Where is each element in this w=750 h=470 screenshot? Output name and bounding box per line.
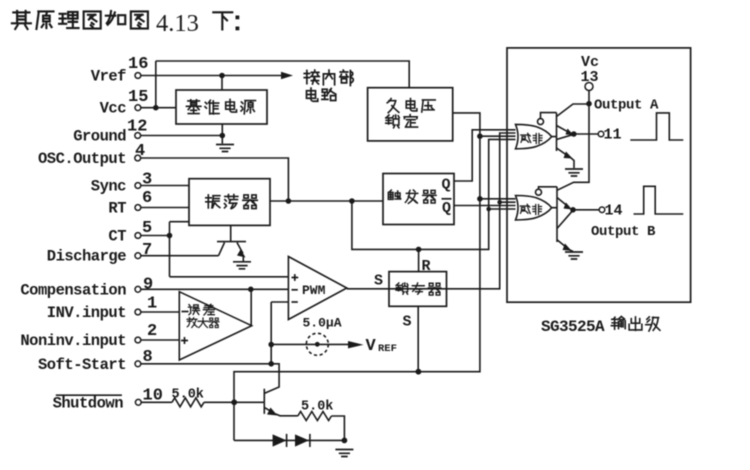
svg-text:5: 5 xyxy=(142,219,152,238)
svg-text:1: 1 xyxy=(147,295,157,314)
svg-text:Output A: Output A xyxy=(594,98,659,114)
svg-text:SG3525A: SG3525A xyxy=(541,318,605,336)
svg-text:INV.input: INV.input xyxy=(47,304,126,322)
svg-text:2: 2 xyxy=(147,322,157,341)
svg-text:REF: REF xyxy=(378,343,397,355)
svg-text:S: S xyxy=(374,273,383,290)
svg-text:13: 13 xyxy=(581,69,599,86)
svg-text:12: 12 xyxy=(127,118,147,137)
svg-text:R: R xyxy=(422,258,431,275)
svg-text:Discharge: Discharge xyxy=(47,248,126,266)
svg-text:6: 6 xyxy=(142,189,152,208)
svg-text:3: 3 xyxy=(142,171,152,190)
svg-text:OSC.Output: OSC.Output xyxy=(38,150,126,168)
svg-text:15: 15 xyxy=(128,88,148,107)
svg-text:5.0k: 5.0k xyxy=(172,388,204,403)
svg-text:8: 8 xyxy=(143,348,153,367)
svg-text:7: 7 xyxy=(142,241,152,260)
svg-text:Output B: Output B xyxy=(591,224,656,240)
svg-text:Sync: Sync xyxy=(91,178,126,196)
svg-text:CT: CT xyxy=(108,228,126,246)
svg-text:Shutdown: Shutdown xyxy=(53,394,124,412)
svg-text:Noninv.input: Noninv.input xyxy=(20,332,126,350)
svg-text:11: 11 xyxy=(604,127,622,144)
svg-text:14: 14 xyxy=(605,202,623,219)
svg-text:5.0k: 5.0k xyxy=(301,400,333,415)
svg-text:Soft-Start: Soft-Start xyxy=(38,356,126,374)
svg-text:Q: Q xyxy=(442,177,451,194)
svg-text:Compensation: Compensation xyxy=(20,281,126,299)
svg-text:9: 9 xyxy=(143,276,153,295)
svg-text:Vcc: Vcc xyxy=(100,100,127,118)
svg-text:RT: RT xyxy=(108,200,126,218)
svg-text:Ground: Ground xyxy=(73,128,126,146)
svg-text:10: 10 xyxy=(143,387,163,406)
svg-text:4: 4 xyxy=(135,142,145,161)
svg-text:Q: Q xyxy=(442,200,451,217)
svg-text:16: 16 xyxy=(128,55,148,74)
svg-text:S: S xyxy=(403,314,412,331)
svg-text:V: V xyxy=(366,337,377,356)
svg-text:Vref: Vref xyxy=(91,68,126,86)
svg-text:PWM: PWM xyxy=(302,283,326,298)
svg-text:5.0μA: 5.0μA xyxy=(303,316,342,331)
svg-text:4.13: 4.13 xyxy=(156,10,199,37)
